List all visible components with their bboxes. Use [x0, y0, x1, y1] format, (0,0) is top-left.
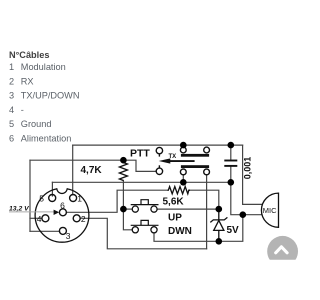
svg-text:4: 4: [9, 105, 14, 115]
pin 3: [59, 227, 66, 234]
pushbutton DWN: [132, 227, 138, 233]
pin 1: [70, 195, 77, 202]
wire 5.6K right lead: [190, 190, 219, 209]
wire 4.7K lower lead: [123, 181, 132, 230]
13,2V arrowhead at pin 6: [54, 210, 60, 215]
svg-text:1: 1: [9, 62, 14, 72]
svg-text:5,6K: 5,6K: [163, 197, 185, 208]
wire mic bottom lead: [243, 214, 262, 216]
svg-text:UP: UP: [168, 213, 182, 224]
svg-text:Ground: Ground: [21, 119, 52, 129]
wire pin4 lead: [30, 217, 42, 219]
svg-text:6: 6: [9, 134, 14, 144]
wire cap bottom to mic: [231, 182, 243, 214]
svg-text:TX/UP/DOWN: TX/UP/DOWN: [21, 91, 80, 101]
svg-text:N°Câbles: N°Câbles: [9, 50, 49, 60]
node cap bottom: [228, 179, 235, 186]
wire dwn right drop: [154, 233, 219, 241]
svg-text:PTT: PTT: [130, 147, 150, 159]
wire up to zener node: [157, 208, 219, 210]
capacitor C1 0,001: [224, 161, 237, 166]
pin 6: [59, 209, 66, 216]
svg-text:4: 4: [37, 214, 42, 224]
svg-text:DWN: DWN: [168, 226, 192, 237]
pin 4: [42, 215, 49, 222]
svg-text:5: 5: [9, 119, 14, 129]
13,2V pointer line: [9, 211, 54, 213]
wire pin1 riser: [72, 145, 74, 195]
node zener top: [216, 206, 223, 213]
wire pin5 riser: [51, 182, 53, 196]
svg-text:4,7K: 4,7K: [81, 165, 103, 176]
wire mic top feed: [243, 145, 262, 204]
svg-text:0,001: 0,001: [243, 157, 253, 180]
relay wiper bar top: [181, 154, 209, 157]
svg-text:3: 3: [9, 91, 14, 101]
microphone MIC: [261, 193, 278, 227]
wire ptt lever link: [123, 160, 156, 171]
node cap top: [228, 142, 235, 149]
pin 2: [73, 215, 80, 222]
wire up row: [123, 208, 132, 210]
wire left vertical: [29, 160, 31, 231]
svg-text:Modulation: Modulation: [21, 62, 66, 72]
node up row: [120, 206, 127, 213]
wire ground bus: [80, 218, 206, 249]
wire pin6 to 5.6K: [66, 190, 167, 212]
svg-text:MIC: MIC: [263, 206, 277, 215]
wire ptt bottom-left drop: [182, 175, 184, 183]
node zener bottom: [216, 238, 223, 245]
wire cap top lead: [230, 145, 232, 160]
wire ptt bottom-right drop: [206, 175, 208, 249]
scroll-top chevron: [276, 247, 287, 253]
svg-text:1: 1: [77, 194, 82, 204]
relay contact top-right: [204, 147, 210, 153]
scroll-top button: [267, 236, 298, 267]
node rx/ptt: [180, 179, 187, 186]
relay contact top-left: [180, 147, 186, 153]
pin 5: [49, 195, 56, 202]
wire pin3 lead: [30, 230, 60, 232]
svg-text:13,2 V: 13,2 V: [9, 205, 30, 212]
svg-text:2: 2: [9, 76, 14, 86]
pushbutton UP: [132, 206, 138, 212]
zener diode D1 5V: [210, 209, 227, 241]
svg-text:RX: RX: [21, 76, 34, 86]
PTT manual switch bottom contact: [156, 168, 162, 174]
PTT manual switch top contact: [156, 147, 162, 153]
node mic bottom: [240, 211, 247, 218]
svg-text:2: 2: [81, 214, 86, 224]
resistor R1 4,7K: [119, 160, 127, 180]
svg-text:3: 3: [66, 231, 71, 241]
relay contact bottom-left: [180, 169, 186, 175]
svg-text:-: -: [21, 105, 24, 115]
wire top bus: [73, 144, 243, 146]
node ptt top: [180, 142, 187, 149]
junction node dots: [120, 142, 246, 245]
wire modulation bus: [30, 159, 123, 161]
connector keyway notch: [57, 183, 67, 193]
relay contact bottom-right: [204, 169, 210, 175]
svg-text:6: 6: [60, 200, 65, 210]
svg-text:5V: 5V: [227, 225, 240, 236]
resistor R2 5,6K: [168, 187, 191, 194]
Tx arrow: [159, 158, 195, 163]
wire rx bus: [52, 181, 230, 183]
svg-text:5: 5: [39, 194, 44, 204]
relay wiper bar bottom: [181, 165, 209, 168]
svg-text:Alimentation: Alimentation: [21, 134, 72, 144]
wire cap bottom lead: [230, 166, 232, 182]
wire zener to mic ground: [219, 215, 243, 242]
node 4.7K top: [120, 157, 127, 164]
connector DIN outer circle: [35, 188, 89, 242]
wire ptt top contact drop: [182, 145, 184, 147]
